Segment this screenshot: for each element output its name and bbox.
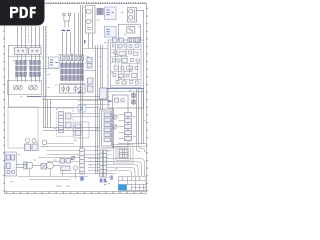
- label X3: [110, 176, 113, 180]
- wire runs to io panel: [73, 114, 100, 117]
- label X2: [100, 179, 103, 183]
- aux switch S2: [127, 27, 135, 34]
- frame zone ticks top: [6, 2, 146, 3]
- contactor K3 with overload F3: [61, 63, 72, 81]
- pump control box A6: [113, 95, 129, 147]
- brake resistor with cross: [41, 164, 47, 170]
- blue wire labels under bridge: [62, 30, 71, 31]
- wire bottom long runs: [60, 173, 116, 175]
- frame zone ticks right: [146, 8, 148, 191]
- wire 3-phase feeder lines group 4: [75, 13, 83, 63]
- motor symbols M5 M6: [131, 93, 135, 106]
- nested wiring loops: [114, 145, 134, 164]
- blue dashed match line 2: [28, 26, 30, 44]
- motor M2: [47, 162, 54, 169]
- wire horizontal pair center: [43, 128, 100, 131]
- tiny label smudges: [13, 7, 146, 178]
- PDF badge: [0, 0, 45, 26]
- CT circle 1: [13, 85, 18, 90]
- revision marks: [105, 181, 110, 185]
- blue cable marker left: [27, 96, 42, 98]
- circuit breaker Q2: [29, 48, 42, 55]
- fuse switch block Q4: [72, 55, 83, 61]
- valve circle V2: [113, 125, 117, 129]
- busbar bridge top: [63, 13, 71, 27]
- motor M1: [24, 162, 33, 169]
- title block: [118, 177, 146, 191]
- label X1: [80, 177, 83, 181]
- auxiliary contact blocks: [97, 9, 103, 15]
- wire risers center-right: [81, 5, 103, 174]
- control panel inner border: [110, 42, 141, 87]
- aux starter group: [25, 139, 39, 151]
- terminal strip X1: [80, 148, 84, 174]
- circuit breaker Q1: [15, 48, 28, 55]
- wire horizontal runs below mcb row: [42, 97, 108, 100]
- frame zone ticks left: [3, 8, 5, 191]
- filter box A11: [74, 122, 89, 138]
- wire 3-phase feeder lines group 2: [32, 26, 40, 62]
- relay mesh wiring: [111, 47, 141, 86]
- soft starter module A8: [5, 152, 17, 176]
- wire left feeder drop: [8, 45, 10, 107]
- wire 3-phase feeder lines group 1: [18, 26, 26, 62]
- blue dashed match line: [46, 26, 48, 98]
- fuse switch block Q3: [60, 55, 71, 61]
- contactor K4 with overload F4: [73, 63, 84, 81]
- wire below blue bus: [108, 91, 144, 93]
- junction box with grid: [120, 150, 128, 158]
- indicator lamps: [7, 170, 10, 173]
- wire horizontal above mcb row: [60, 83, 86, 85]
- interface blocks mid: [87, 58, 107, 100]
- wire from S1 to frame: [118, 10, 144, 40]
- wire cross runs right of feeders: [78, 49, 110, 105]
- terminal stack right: [125, 113, 132, 141]
- wire crossing under legend: [42, 68, 60, 70]
- wire control riser bundle: [44, 26, 51, 128]
- wire stubs to CT enclosure: [18, 77, 40, 83]
- wire horizontal to frame right: [118, 143, 146, 145]
- valve circle V1: [113, 115, 117, 119]
- relay module A3: [105, 7, 117, 20]
- io panel A9: [100, 109, 114, 148]
- comms module A10: [78, 105, 86, 112]
- wire horizontal below breakers: [8, 56, 42, 58]
- relay module A4: [105, 27, 117, 38]
- mcb F8: [79, 87, 83, 91]
- cabinet outline left: [8, 107, 38, 148]
- mcb F6: [66, 87, 70, 91]
- CT circle 3: [28, 85, 33, 90]
- changeover switch S1: [128, 8, 137, 23]
- CT circle 4: [33, 85, 38, 90]
- frame zone ticks bottom: [6, 191, 142, 193]
- wire incomer drops: [89, 33, 93, 49]
- aux blocks bottom center: [60, 159, 71, 171]
- terminal strip X2: [100, 150, 107, 177]
- sensor circle: [74, 166, 78, 170]
- wire bus to control section: [8, 107, 100, 109]
- wire 3-phase feeder lines group 3: [63, 32, 71, 63]
- wire right risers: [137, 88, 144, 143]
- pump box header blocks: [115, 98, 125, 102]
- wire bottom distribution runs: [18, 169, 88, 180]
- wire label tags mid: [78, 40, 111, 102]
- vfd module A7: [57, 109, 74, 137]
- pressure switch B1: [41, 140, 48, 146]
- relay logic mesh: [113, 44, 140, 84]
- relay mesh junction circles: [115, 54, 132, 80]
- terminal stack wiring: [119, 115, 125, 139]
- contactor K1 with overload F1: [16, 61, 27, 77]
- wire motor links: [17, 165, 61, 168]
- mcb F7: [74, 87, 78, 91]
- enclosure current transformers T1: [8, 81, 42, 95]
- wire horizontal runs lower: [38, 144, 112, 162]
- mcb F5: [61, 87, 65, 91]
- control panel outline A5: [108, 40, 144, 108]
- mcb row enclosure: [60, 85, 86, 94]
- title block logo cell: [119, 185, 127, 191]
- main switch Q0: [86, 6, 96, 34]
- CT circle 2: [18, 85, 23, 90]
- contactor K2 with overload F2: [30, 61, 41, 77]
- legend box A2: [49, 57, 60, 68]
- limit switch: [71, 156, 75, 160]
- drawing frame border: [5, 3, 147, 194]
- blue control bus: [106, 88, 144, 90]
- page footer smudges: [10, 181, 70, 187]
- wire horizontal bus left: [8, 45, 42, 47]
- wire bundle bend to title block: [88, 144, 145, 177]
- terminal header blocks top of panel: [113, 38, 141, 43]
